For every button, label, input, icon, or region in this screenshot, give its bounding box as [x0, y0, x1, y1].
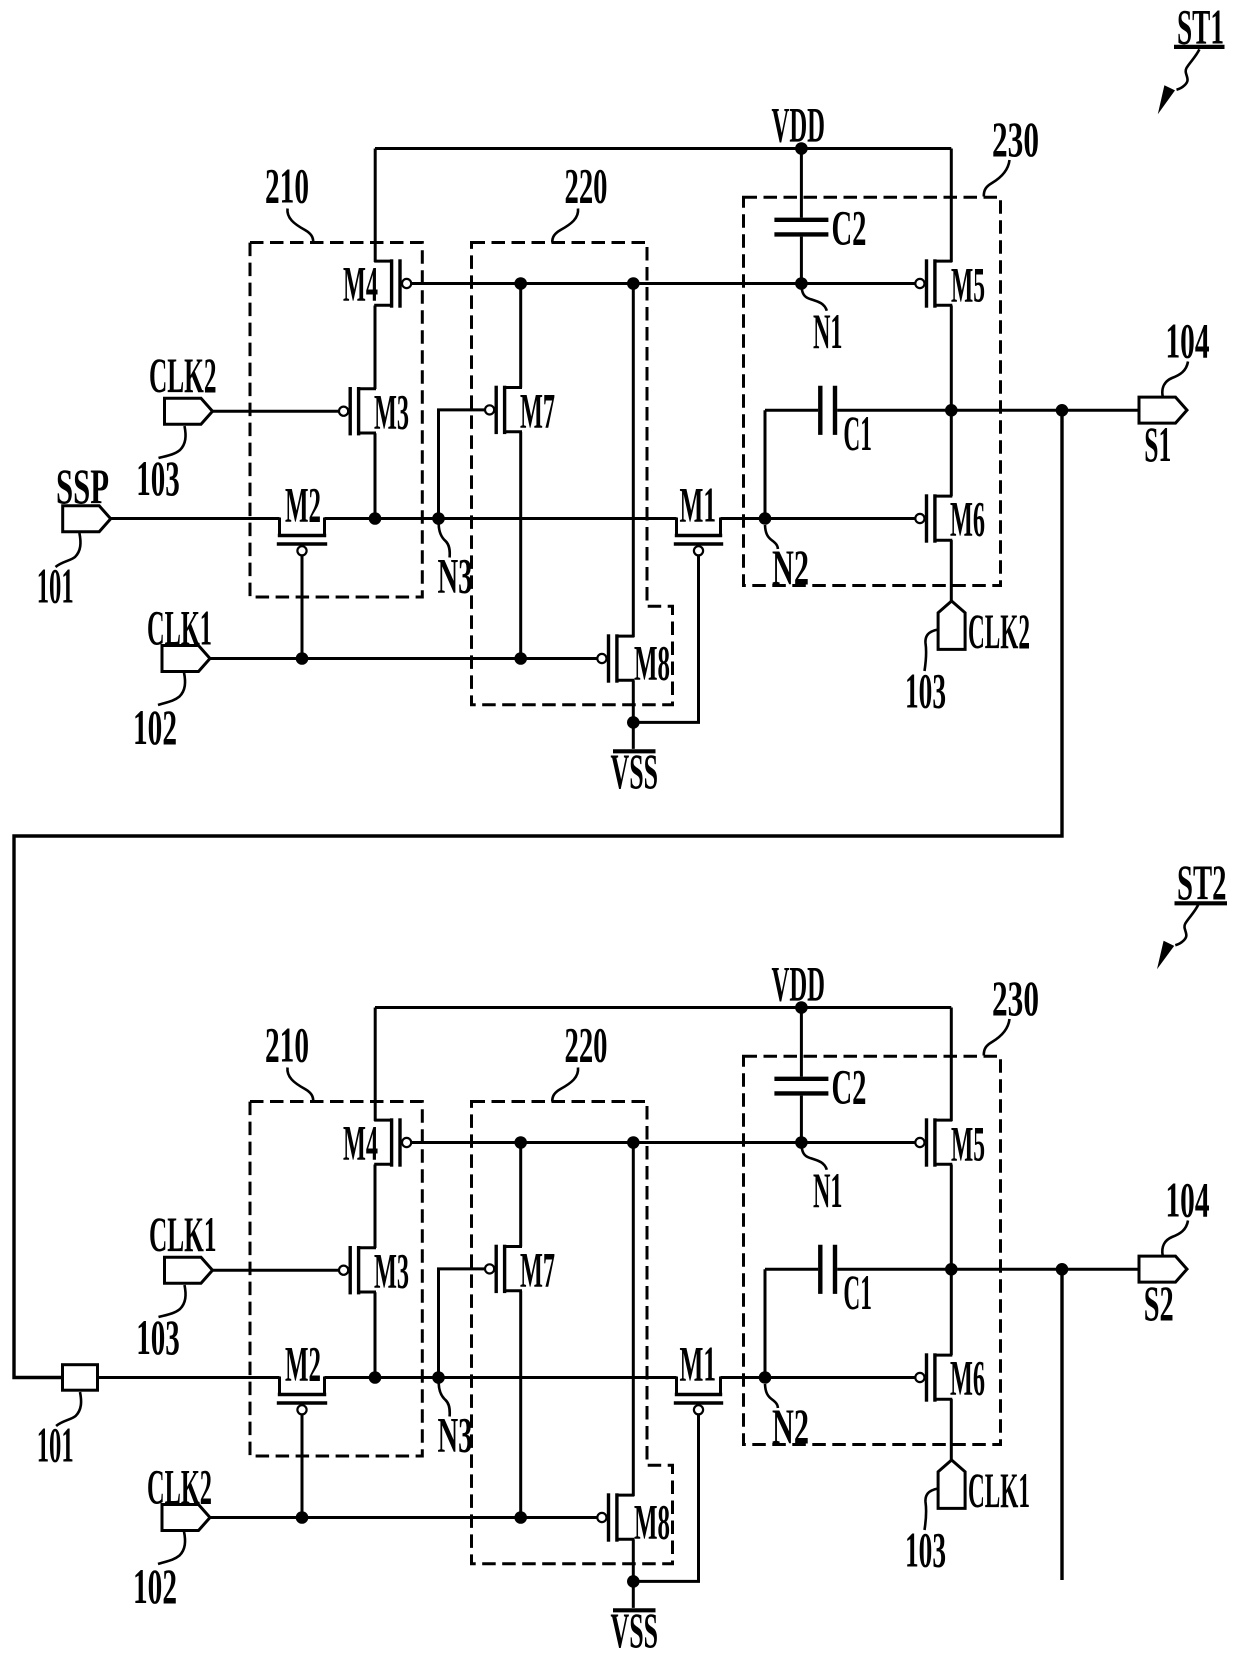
junction dot feedback tap' [1056, 1263, 1069, 1276]
junction dot M7 drain on N1 [514, 277, 527, 290]
leader 104 [1162, 362, 1188, 397]
wire M5 drain to VDD [950, 149, 953, 263]
wire N2 to M6 gate [721, 517, 915, 520]
transistor M1 [675, 518, 678, 536]
node N3 junction dot [432, 512, 445, 525]
junction dot M8 drain on N1 [627, 277, 640, 290]
wire M7 source to clock rail [519, 432, 522, 659]
transistor M2 [278, 518, 281, 536]
capacitor C2' [800, 1008, 803, 1077]
dashed box 220 [472, 243, 673, 705]
wire M1 gate to VSS node [633, 556, 698, 723]
wire clock rail to M8 gate [210, 657, 597, 660]
svg-text:M4: M4 [343, 1115, 378, 1171]
wire M2 gate down [301, 556, 304, 659]
wire M8 source down' [632, 1539, 635, 1581]
leader N3 [439, 525, 450, 558]
leader 103' right [925, 1489, 939, 1531]
svg-text:M2: M2 [285, 1335, 321, 1391]
leader 101 [56, 533, 81, 567]
leader 230 [984, 160, 1010, 197]
ST2 pointer arrow [1175, 905, 1198, 945]
transistor M5' [935, 1119, 952, 1122]
svg-text:SSP: SSP [56, 458, 109, 514]
svg-text:S1: S1 [1144, 416, 1171, 472]
leader 103' upper [159, 1285, 186, 1317]
transistor M7' [505, 1245, 522, 1248]
ground node junction dot [627, 716, 640, 729]
svg-text:S2: S2 [1144, 1275, 1174, 1331]
wire M8 drain to N1 [632, 284, 635, 638]
junction dot M7 drain on N1' [514, 1136, 527, 1149]
svg-text:M7: M7 [520, 1242, 555, 1298]
svg-text:230: 230 [992, 111, 1039, 167]
wire M7 drain to N1' [519, 1143, 522, 1247]
svg-text:101: 101 [37, 557, 74, 613]
svg-text:220: 220 [565, 1016, 608, 1072]
wire M7 drain to N1 [519, 284, 522, 388]
wire M5 drain to VDD' [950, 1008, 953, 1122]
dashed box 230 [744, 197, 1001, 585]
wire M7 gate from N3 [439, 410, 485, 519]
transistor M4 [374, 260, 391, 263]
wire M1 gate to VSS node' [633, 1415, 698, 1582]
svg-text:M5: M5 [951, 257, 985, 313]
clock terminal CLK1 below M6' [938, 1460, 965, 1508]
svg-text:CLK2: CLK2 [968, 603, 1030, 659]
wire M6 drain up [950, 410, 953, 496]
wire output to terminal [951, 409, 1139, 412]
svg-text:M1: M1 [680, 1335, 717, 1391]
ground node junction dot' [627, 1575, 640, 1588]
capacitor C1' [765, 1268, 818, 1271]
wire clock rail to M8 gate' [210, 1516, 597, 1519]
wire M5 source down [950, 306, 953, 411]
wire M7 gate from N3' [439, 1269, 485, 1378]
leader 102' [158, 1532, 185, 1565]
wire M2 gate down' [301, 1415, 304, 1518]
transistor M7 [505, 386, 522, 389]
svg-text:210: 210 [265, 1016, 309, 1072]
dashed box 230' [744, 1056, 1001, 1444]
leader 220' [552, 1068, 578, 1102]
junction dot output node' [945, 1263, 958, 1276]
node N2 junction dot' [759, 1371, 772, 1384]
svg-text:N3: N3 [438, 1407, 473, 1463]
wire node N1 horizontal [412, 282, 915, 285]
ST1 pointer arrow [1177, 49, 1200, 89]
svg-text:N3: N3 [438, 548, 473, 604]
ground VSS [632, 722, 635, 749]
wire CLK2 to M3 gate [213, 410, 339, 413]
wire CLK1 to M3 gate' [213, 1269, 339, 1272]
svg-text:103: 103 [136, 450, 180, 506]
wire VDD rail [375, 147, 951, 150]
wire node N1 horizontal' [412, 1141, 915, 1144]
VDD junction dot' [795, 1001, 808, 1014]
wire M4 source to VDD' [374, 1008, 377, 1122]
svg-text:M6: M6 [950, 490, 985, 546]
node N1 junction dot' [795, 1136, 808, 1149]
connection square 101' [63, 1365, 98, 1391]
transistor M1' [675, 1377, 678, 1395]
wire M6 source down [950, 540, 953, 601]
leader 103 upper [159, 426, 186, 458]
svg-text:VSS: VSS [611, 1602, 659, 1658]
junction dot M2 gate on clock rail [296, 652, 309, 665]
leader N3' [439, 1384, 450, 1417]
leader 104' [1162, 1221, 1188, 1256]
svg-text:M3: M3 [374, 384, 409, 440]
transistor M3' [359, 1246, 376, 1249]
node N2 junction dot [759, 512, 772, 525]
VDD junction dot [795, 142, 808, 155]
svg-text:CLK1: CLK1 [147, 599, 212, 655]
wire M2 to M1 (node N3 segment) [325, 517, 677, 520]
leader N1' [801, 1144, 826, 1170]
wire M3 source to input line' [374, 1292, 377, 1377]
svg-text:C2: C2 [832, 1059, 867, 1115]
transistor M6' [935, 1354, 952, 1357]
svg-text:102: 102 [133, 699, 177, 755]
wire M8 source down [632, 680, 635, 722]
svg-text:103: 103 [136, 1309, 180, 1365]
capacitor C2 [800, 149, 803, 218]
wire N2 to M6 gate' [721, 1376, 915, 1379]
svg-text:M4: M4 [343, 256, 378, 312]
dashed box 220' [472, 1102, 673, 1564]
junction dot M2 gate on clock rail' [296, 1511, 309, 1524]
wire M3 drain to M4 [374, 306, 377, 390]
svg-text:104: 104 [1166, 313, 1210, 369]
wire M8 drain to N1' [632, 1143, 635, 1497]
junction dot output node [945, 404, 958, 417]
leader N1 [801, 285, 826, 311]
svg-text:C1: C1 [843, 1264, 872, 1320]
transistor M4' [374, 1119, 391, 1122]
wire M6 source down' [950, 1399, 953, 1460]
leader 230' [984, 1019, 1010, 1056]
svg-text:101: 101 [37, 1416, 74, 1472]
junction dot M8 drain on N1' [627, 1136, 640, 1149]
leader 210 [287, 209, 313, 243]
svg-text:230: 230 [992, 970, 1039, 1026]
leader 220 [552, 209, 578, 243]
output terminal S2' [1139, 1256, 1187, 1282]
transistor M8 [617, 635, 634, 638]
wire M3 source to input line [374, 433, 377, 518]
svg-text:CLK1: CLK1 [968, 1462, 1030, 1518]
wire M6 drain up' [950, 1269, 953, 1355]
svg-text:CLK1: CLK1 [149, 1206, 217, 1262]
leader 210' [287, 1068, 313, 1102]
wire N2 riser to C1 [764, 410, 767, 518]
svg-text:210: 210 [265, 157, 309, 213]
svg-text:M8: M8 [634, 1493, 670, 1549]
svg-text:CLK2: CLK2 [147, 1458, 212, 1514]
wire S2 feedback drop [1060, 1269, 1063, 1580]
wire SSP to M2 [111, 517, 280, 520]
wire M2 to M1 (node N3 segment)' [325, 1376, 677, 1379]
node N3 junction dot' [432, 1371, 445, 1384]
svg-text:103: 103 [905, 662, 946, 718]
svg-text:102: 102 [133, 1558, 177, 1614]
wire M3 drain to M4' [374, 1165, 377, 1249]
dashed box 210 [250, 243, 422, 598]
input terminal CLK1 [162, 646, 210, 672]
transistor M3 [359, 387, 376, 390]
junction dot M3 source' [369, 1371, 382, 1384]
svg-text:M7: M7 [520, 383, 555, 439]
svg-text:M1: M1 [680, 476, 717, 532]
svg-text:C2: C2 [832, 200, 867, 256]
clock terminal CLK2 below M6 [938, 601, 965, 649]
leader N2 [765, 525, 778, 549]
transistor M6 [935, 495, 952, 498]
wire N2 riser to C1' [764, 1269, 767, 1377]
wire M4 source to VDD [374, 149, 377, 263]
svg-text:M3: M3 [374, 1243, 409, 1299]
leader 102 [158, 673, 185, 706]
junction dot M7 source on clock rail' [514, 1511, 527, 1524]
svg-text:N1: N1 [813, 303, 843, 359]
input terminal SSP [63, 506, 111, 532]
wire output to terminal' [951, 1268, 1139, 1271]
junction dot M3 source [369, 512, 382, 525]
output terminal S1 [1139, 397, 1187, 423]
wire feedback S1 to ST2 input [14, 410, 1062, 1377]
svg-text:VSS: VSS [611, 743, 659, 799]
leader N2' [765, 1384, 778, 1408]
svg-text:220: 220 [565, 157, 608, 213]
ground VSS' [632, 1581, 635, 1608]
wire M5 source down' [950, 1165, 953, 1270]
svg-text:C1: C1 [843, 405, 872, 461]
transistor M8' [617, 1494, 634, 1497]
svg-text:CLK2: CLK2 [149, 347, 217, 403]
dashed box 210' [250, 1102, 422, 1457]
junction dot M7 source on clock rail [514, 652, 527, 665]
input terminal CLK1' [165, 1257, 213, 1283]
wire input line from square to M2' [98, 1376, 280, 1379]
svg-text:N1: N1 [813, 1162, 843, 1218]
input terminal CLK2 [165, 398, 213, 424]
leader 101' [56, 1392, 81, 1426]
wire VDD rail' [375, 1006, 951, 1009]
capacitor C1 [765, 409, 818, 412]
input terminal CLK2' [162, 1505, 210, 1531]
svg-text:104: 104 [1166, 1172, 1210, 1228]
svg-text:103: 103 [905, 1521, 946, 1577]
wire M7 source to clock rail' [519, 1291, 522, 1518]
leader 103 right [925, 630, 939, 672]
transistor M2' [278, 1377, 281, 1395]
svg-text:M2: M2 [285, 476, 321, 532]
transistor M5 [935, 260, 952, 263]
svg-text:M5: M5 [951, 1116, 985, 1172]
node N1 junction dot [795, 277, 808, 290]
svg-text:M8: M8 [634, 634, 670, 690]
svg-text:M6: M6 [950, 1349, 985, 1405]
junction dot feedback tap [1056, 404, 1069, 417]
